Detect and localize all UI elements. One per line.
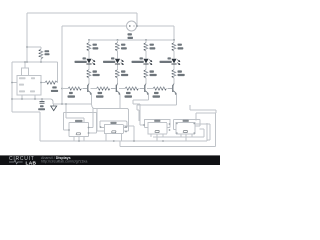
svg-text:LAB: LAB <box>26 160 37 165</box>
svg-text:http://circuitlab.com/c/g7z1ka: http://circuitlab.com/c/g7z1ka <box>41 160 87 164</box>
